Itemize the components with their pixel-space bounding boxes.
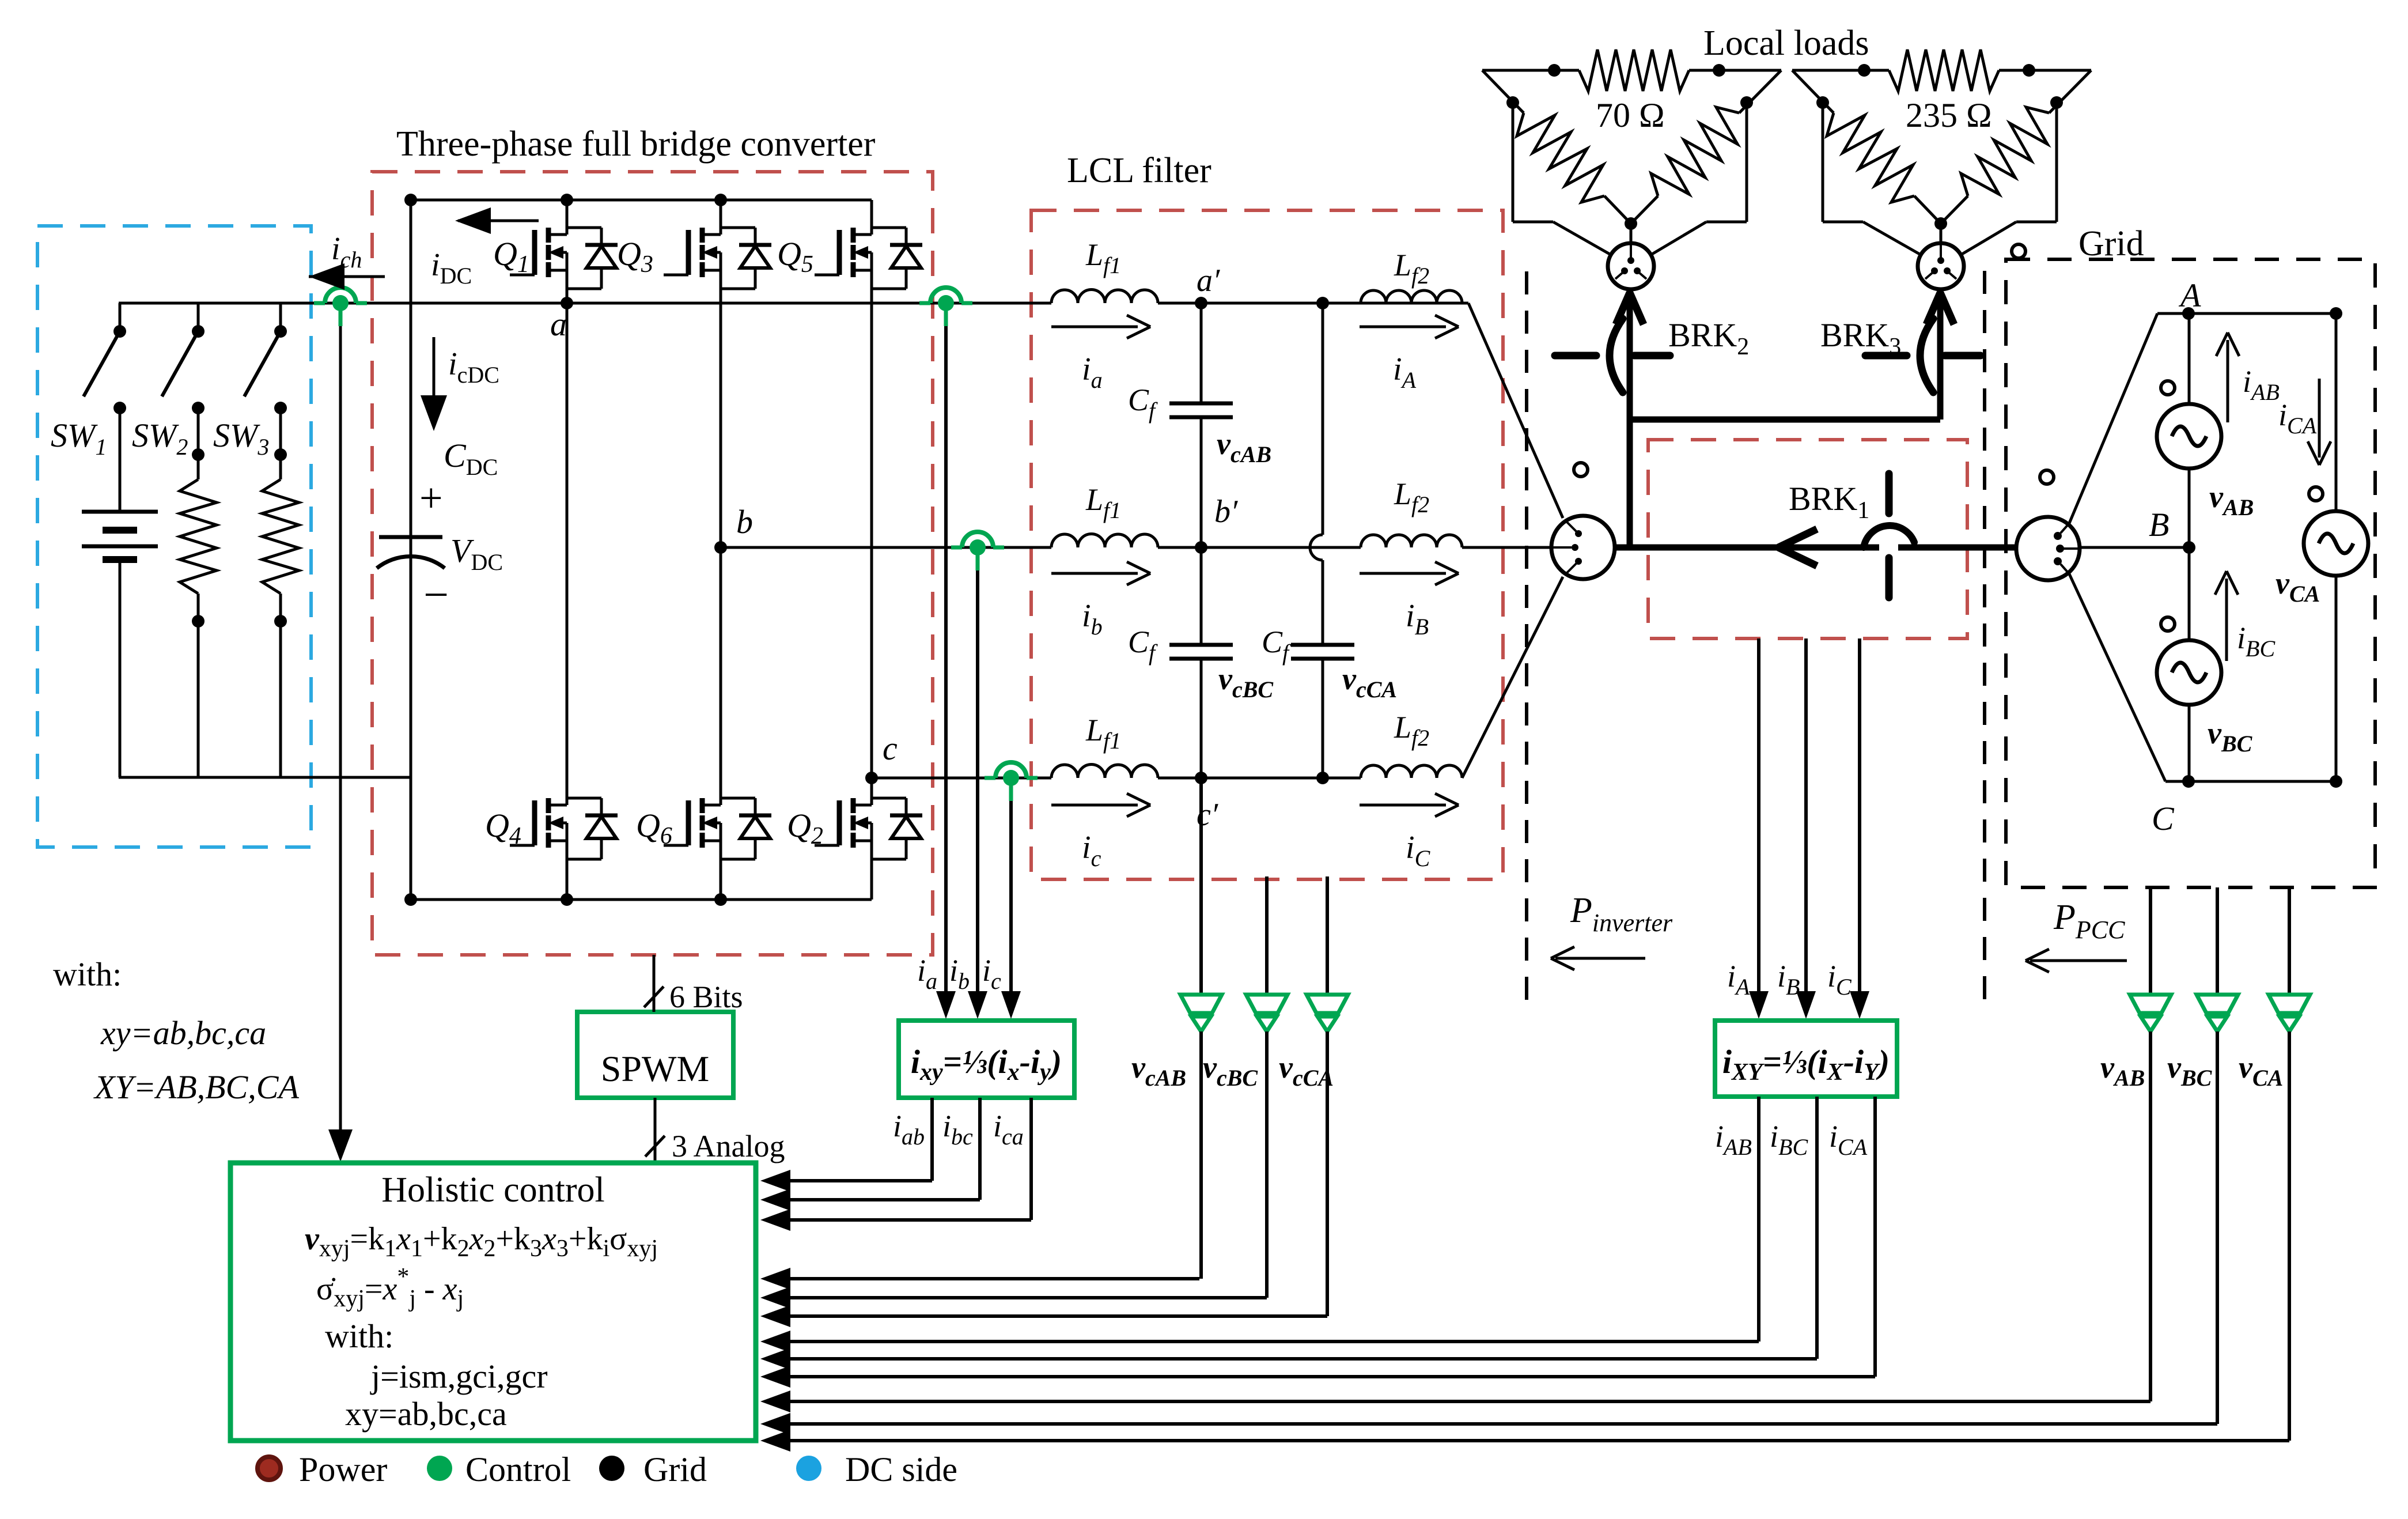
svg-text:with:: with: xyxy=(53,955,122,993)
svg-text:Grid: Grid xyxy=(643,1450,707,1488)
svg-text:Holistic control: Holistic control xyxy=(381,1170,604,1210)
svg-text:70 Ω: 70 Ω xyxy=(1596,96,1665,134)
svg-text:j=ism,gci,gcr: j=ism,gci,gcr xyxy=(370,1358,548,1395)
svg-text:LCL filter: LCL filter xyxy=(1067,151,1211,190)
svg-text:Local loads: Local loads xyxy=(1703,24,1869,63)
svg-text:6 Bits: 6 Bits xyxy=(669,980,743,1014)
svg-text:xy=ab,bc,ca: xy=ab,bc,ca xyxy=(345,1395,507,1433)
svg-text:c: c xyxy=(883,730,898,767)
svg-text:235 Ω: 235 Ω xyxy=(1906,96,1992,134)
svg-text:Control: Control xyxy=(465,1450,571,1488)
svg-text:XY=AB,BC,CA: XY=AB,BC,CA xyxy=(93,1068,299,1106)
svg-text:−: − xyxy=(423,569,449,619)
svg-text:a′: a′ xyxy=(1197,263,1220,298)
svg-text:b′: b′ xyxy=(1214,494,1238,530)
svg-text:BRK3: BRK3 xyxy=(1820,316,1901,360)
svg-text:A: A xyxy=(2178,277,2201,314)
svg-text:B: B xyxy=(2149,506,2169,543)
svg-text:SPWM: SPWM xyxy=(601,1048,710,1089)
svg-text:xy=ab,bc,ca: xy=ab,bc,ca xyxy=(100,1014,266,1052)
svg-text:Power: Power xyxy=(299,1450,387,1488)
svg-text:DC side: DC side xyxy=(845,1450,957,1488)
svg-text:Grid: Grid xyxy=(2078,224,2144,263)
svg-text:Three-phase full bridge conver: Three-phase full bridge converter xyxy=(396,124,876,164)
svg-text:a: a xyxy=(550,305,567,343)
svg-text:C: C xyxy=(2152,800,2175,837)
svg-text:with:: with: xyxy=(325,1317,393,1355)
svg-text:+: + xyxy=(419,475,443,521)
svg-text:BRK2: BRK2 xyxy=(1668,316,1749,360)
svg-text:b: b xyxy=(736,503,753,541)
svg-text:BRK1: BRK1 xyxy=(1789,480,1869,524)
svg-text:3 Analog: 3 Analog xyxy=(672,1129,785,1163)
